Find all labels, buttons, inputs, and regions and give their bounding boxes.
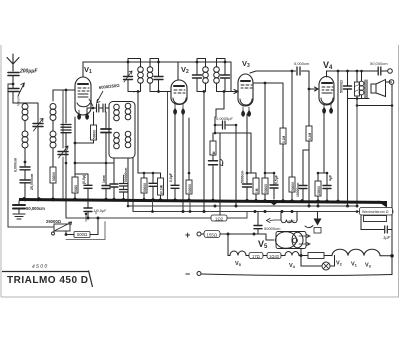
svg-text:V5: V5 [258, 239, 268, 250]
capacitor 0,5μF below bus [87, 201, 89, 218]
svg-text:1M: 1M [212, 151, 216, 156]
wire [86, 108, 88, 117]
capacitor osc pad [113, 158, 115, 201]
tuning capacitor C2 [62, 90, 64, 201]
resistor 0,1M [282, 83, 284, 201]
capacitor 4μF [318, 173, 327, 201]
tube V1 [75, 77, 91, 115]
antenna [7, 54, 19, 71]
svg-text:V3: V3 [365, 263, 372, 269]
wire [215, 133, 251, 173]
resistor 50000 V2 [188, 118, 190, 201]
svg-text:1mm: 1mm [102, 175, 106, 183]
resistor mains [364, 216, 387, 222]
svg-text:1M: 1M [255, 188, 259, 193]
svg-text:0,1M: 0,1M [308, 133, 312, 140]
wire [174, 112, 176, 185]
capacitor output [347, 71, 349, 99]
resistor 1Ω2 [211, 215, 227, 221]
svg-text:4Ω2: 4Ω2 [288, 220, 295, 224]
node antenna junction [12, 83, 15, 86]
wire screen [337, 71, 339, 201]
wire cathode heater [219, 133, 221, 215]
capacitor 200μμF [8, 73, 19, 76]
terminal [389, 80, 394, 85]
svg-text:1Ω2: 1Ω2 [215, 217, 224, 222]
capacitor 25000cm [20, 180, 30, 183]
capacitor [144, 173, 161, 201]
svg-text:0,5μF: 0,5μF [169, 173, 173, 182]
volume potentiometer 25000Ω [54, 224, 70, 231]
resistor 1M grid [212, 133, 214, 201]
svg-text:(0,1M): (0,1M) [160, 185, 164, 194]
wire [347, 99, 349, 207]
svg-text:4 5 0 0: 4 5 0 0 [32, 263, 48, 270]
node [65, 89, 68, 92]
heater winding V4 [285, 252, 302, 256]
svg-text:V2: V2 [181, 65, 189, 75]
padder capacitor [105, 112, 107, 128]
wire cathode [74, 117, 76, 177]
resistor 50000 [50, 167, 56, 183]
terminal + [197, 232, 201, 236]
IF transformer T3 [217, 59, 232, 92]
wire stub rail B2 [189, 201, 191, 212]
pin [174, 104, 177, 114]
tube V3 [238, 74, 253, 106]
svg-text:50000: 50000 [291, 182, 295, 191]
svg-text:5000: 5000 [74, 185, 78, 192]
bus junctions [21, 197, 387, 208]
rail C [66, 212, 247, 219]
capacitor 5000cm cathode [243, 184, 252, 187]
svg-text:155Ω: 155Ω [207, 232, 218, 237]
resistor 5000 [72, 177, 78, 193]
IF transformer T2 [197, 59, 206, 92]
V3 anode wire [253, 82, 283, 84]
svg-text:0,1M: 0,1M [282, 136, 286, 143]
capacitor 10000cm [303, 150, 309, 201]
wire grid V3 [224, 90, 238, 94]
resistor 50000 IF [143, 173, 145, 201]
wire [356, 106, 358, 207]
terminal [52, 232, 55, 235]
wire output top [327, 70, 378, 72]
title TRIALMO 450 D [2, 271, 93, 288]
tube V4 [319, 77, 334, 106]
wire stub rail B [152, 201, 154, 212]
capacitor 50000cm buffer [257, 212, 259, 235]
wire to left border [8, 83, 13, 85]
resistor osc grid [93, 112, 95, 125]
frame [66, 212, 105, 240]
IF transformer T1 [128, 59, 141, 93]
capacitor 5000cm coupling [291, 70, 294, 73]
bus end wedge [377, 201, 387, 208]
rectifier V5 [266, 234, 274, 240]
wire grid V1 [53, 89, 75, 91]
photo edges [1, 45, 399, 297]
trimmer capacitor [8, 89, 19, 92]
svg-text:6000/250Ω: 6000/250Ω [99, 83, 121, 90]
svg-text:0,5μF: 0,5μF [275, 175, 279, 184]
resistor 500Ω [66, 231, 74, 235]
svg-text:10000cm: 10000cm [296, 183, 300, 197]
capacitor 6000cm [20, 167, 30, 170]
V1 top lead [82, 62, 84, 77]
svg-text:V4: V4 [289, 263, 296, 269]
capacitor V2 cathode [171, 185, 179, 188]
pin [86, 110, 89, 119]
resistor tone [356, 71, 358, 106]
svg-text:50,000cm: 50,000cm [26, 206, 45, 211]
label box mains [360, 208, 393, 216]
svg-text:6,000cm: 6,000cm [14, 158, 18, 172]
wire [348, 98, 370, 100]
capacitor with trimmer arrow [209, 161, 218, 165]
svg-text:50000: 50000 [188, 184, 192, 193]
V4 plate lead [326, 71, 328, 77]
antenna coil L1 [13, 102, 22, 104]
pin [78, 110, 81, 119]
output transformer [361, 71, 363, 99]
pin [182, 104, 185, 114]
wire anode bus [83, 61, 231, 63]
RF coil L2 [52, 90, 54, 101]
resistor 1Ω42 [267, 253, 281, 259]
svg-text:50000: 50000 [264, 184, 268, 193]
tube V2 [171, 80, 187, 105]
wire cathode V3 [246, 114, 248, 183]
capacitor 0,5μF V1 cathode [75, 174, 88, 201]
node [24, 161, 27, 164]
resistor ballast [302, 255, 308, 257]
heater winding V5 [230, 251, 249, 256]
ground [13, 214, 25, 219]
heater wire [228, 234, 230, 256]
electrolytic 50000cm ground [18, 201, 20, 213]
right border wire [391, 107, 393, 275]
bottom wire [201, 274, 392, 276]
wire [235, 125, 237, 206]
svg-text:50,000cm: 50,000cm [370, 61, 388, 66]
svg-text:V5: V5 [235, 261, 242, 267]
svg-text:500Ω: 500Ω [77, 232, 87, 237]
capacitor 50000cm [123, 175, 125, 201]
svg-text:4μF: 4μF [329, 175, 333, 181]
resistor 50000 [291, 71, 293, 177]
wire [357, 85, 392, 106]
svg-text:V1: V1 [84, 65, 92, 75]
wire AVC [167, 92, 169, 202]
oscillator coil box [109, 102, 135, 159]
wire [220, 233, 266, 235]
capacitor 0,0005μF [215, 117, 236, 133]
wire grid V2 [159, 91, 172, 93]
resistor 1M [264, 83, 266, 178]
resistor 0,1M [308, 89, 310, 206]
wire [127, 158, 129, 206]
terminal − [197, 272, 201, 276]
rail B [133, 211, 392, 213]
grid capacitors [92, 107, 95, 110]
wire to volume pot [8, 226, 54, 228]
capacitor 1μF [361, 215, 392, 230]
svg-text:50000Ω: 50000Ω [340, 80, 344, 93]
svg-text:TRIALMO 450 D: TRIALMO 450 D [7, 275, 89, 286]
pilot lamp [301, 256, 335, 267]
wire [75, 162, 114, 164]
svg-text:1Ω42: 1Ω42 [269, 254, 280, 259]
svg-text:20000: 20000 [317, 186, 321, 195]
grid circuit wires [216, 92, 224, 118]
terminal [388, 69, 393, 74]
capacitor 1mm [102, 186, 110, 189]
svg-text:5,000cm: 5,000cm [294, 61, 310, 66]
svg-text:200μμF: 200μμF [19, 69, 38, 75]
svg-text:V3: V3 [242, 59, 250, 69]
svg-text:50000cm: 50000cm [264, 226, 281, 231]
rail A [128, 205, 355, 207]
ground bus [19, 197, 387, 208]
svg-text:−: − [185, 269, 190, 279]
svg-text:V4: V4 [323, 60, 333, 71]
resistor 17Ω [249, 253, 263, 259]
svg-text:50000: 50000 [143, 183, 147, 192]
svg-text:V1: V1 [351, 262, 358, 268]
pin [242, 107, 245, 116]
V3 diode wire [250, 71, 292, 73]
mains switch [305, 226, 313, 228]
left border wire [7, 84, 9, 227]
svg-text:(0,5μ): (0,5μ) [82, 175, 86, 184]
pin [330, 104, 333, 113]
svg-text:50000: 50000 [52, 172, 56, 181]
resistor 20000 [318, 110, 324, 206]
svg-text:+: + [185, 230, 190, 240]
svg-text:Wechselstrom Ω: Wechselstrom Ω [362, 210, 389, 214]
resistor 155Ω [201, 233, 204, 235]
svg-text:1/0,5μF: 1/0,5μF [94, 209, 108, 213]
svg-text:0,0005μF: 0,0005μF [216, 116, 234, 121]
mains coil [281, 212, 297, 220]
svg-text:1μF: 1μF [383, 235, 391, 240]
svg-text:V2: V2 [336, 261, 343, 267]
svg-text:25,000cm: 25,000cm [30, 174, 34, 190]
heater windings V2 V1 V3 [332, 249, 392, 256]
resistor [255, 173, 257, 178]
svg-text:Volum: Volum [17, 96, 21, 106]
pin [248, 107, 251, 116]
wire [203, 92, 205, 212]
svg-text:50000: 50000 [93, 130, 97, 139]
wire [182, 112, 184, 212]
svg-text:25000Ω: 25000Ω [46, 219, 62, 224]
wire grid V4 [308, 88, 311, 91]
padder capacitors [65, 90, 67, 123]
capacitor 50000cm output [377, 70, 388, 72]
wire [132, 158, 134, 212]
wire rail A to 215 [214, 205, 216, 207]
svg-text:50000cm: 50000cm [124, 168, 128, 182]
tuning capacitor C1 [13, 103, 38, 201]
loudspeaker [371, 84, 376, 93]
resistor 0,1M [160, 173, 162, 201]
pin [323, 104, 326, 113]
svg-text:17Ω: 17Ω [252, 254, 260, 259]
capacitor 0,5μF [273, 172, 276, 175]
svg-text:5000cm: 5000cm [241, 171, 245, 183]
